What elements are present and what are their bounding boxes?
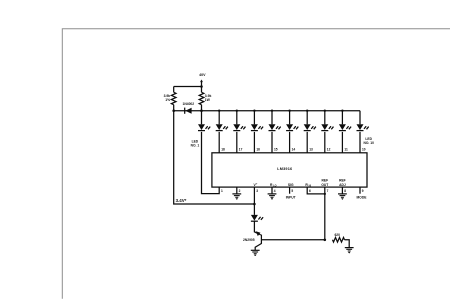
ground (pin 8 REF ADJ) [338, 194, 347, 200]
svg-text:HI: HI [309, 185, 312, 188]
pin 2 GND stub [236, 187, 238, 194]
svg-text:LO: LO [273, 185, 276, 188]
wire LED to Q1 emitter [254, 221, 261, 235]
svg-text:INPUT: INPUT [286, 195, 296, 199]
wire LED10 cathode to pin 10 [359, 132, 361, 153]
svg-text:4: 4 [274, 189, 276, 193]
svg-text:SIG: SIG [288, 183, 294, 187]
wire pin 7 REF OUT down to 620 node [324, 187, 326, 240]
node 40V supply terminal [199, 73, 206, 86]
svg-text:2: 2 [239, 189, 241, 193]
resistor R3 620 [333, 238, 345, 243]
label LED NO. 10 [363, 137, 374, 145]
diode D1 1N4002 [174, 108, 202, 114]
svg-text:LM3916: LM3916 [277, 167, 292, 171]
svg-text:10: 10 [362, 147, 366, 151]
svg-text:NO. 1: NO. 1 [191, 144, 200, 148]
wire LED anode bus [202, 110, 361, 112]
wire LED7 cathode to pin 13 [306, 132, 308, 153]
svg-text:ADJ: ADJ [339, 183, 346, 187]
label REF OUT (pin 7) [321, 179, 328, 187]
wire LED1 cathode to pin 1 [202, 132, 220, 194]
svg-text:3: 3 [256, 189, 258, 193]
LED D9 (LED NO. 8) [321, 111, 334, 131]
wire right resistor leads [201, 87, 203, 111]
wire LED5 cathode to pin 15 [271, 132, 273, 153]
svg-text:16: 16 [256, 147, 260, 151]
resistor R1 3.9k (left) [171, 92, 176, 104]
wire top node [174, 86, 202, 88]
svg-text:17: 17 [239, 147, 243, 151]
LED D4 (LED NO. 3) [233, 111, 246, 131]
svg-text:1%: 1% [165, 98, 170, 102]
svg-text:3.4V*: 3.4V* [176, 198, 187, 203]
svg-text:1: 1 [221, 189, 223, 193]
pin 5 SIG INPUT stub [289, 187, 291, 194]
svg-text:2N2905: 2N2905 [243, 238, 255, 242]
svg-text:7: 7 [327, 189, 329, 193]
transistor Q1 2N2905 [255, 231, 261, 250]
LED D6 (LED NO. 5) [269, 111, 282, 131]
svg-text:620: 620 [334, 233, 340, 237]
LED D5 (LED NO. 4) [251, 111, 264, 131]
resistor R2 3.9k (right) [199, 92, 204, 104]
wire 3.4V rail (left branch down + horizontal) [174, 111, 255, 204]
svg-text:40V: 40V [199, 73, 206, 77]
svg-text:OUT: OUT [321, 183, 328, 187]
wire LED8 cathode to pin 12 [324, 132, 326, 153]
ground (pin 2) [232, 194, 241, 200]
svg-text:1W: 1W [205, 98, 211, 102]
svg-text:1N4002: 1N4002 [183, 102, 195, 106]
pin 4 RLO stub [271, 187, 273, 194]
svg-text:12: 12 [327, 147, 331, 151]
svg-text:14: 14 [292, 147, 296, 151]
wire pin 6 RHI to pin 7 REF OUT [307, 187, 325, 194]
LED D11 (LED NO. 10) [357, 111, 370, 131]
wire R3 to ground [345, 240, 350, 248]
LED D12 (emitter indicator) [251, 204, 264, 221]
pin 9 MODE stub [359, 187, 361, 194]
page border frame [62, 29, 450, 299]
wire LED9 cathode to pin 11 [341, 132, 343, 153]
top pin numbers 18-10 [221, 147, 366, 151]
svg-text:NO. 10: NO. 10 [363, 141, 374, 145]
pin 8 REF ADJ stub [341, 187, 343, 194]
label REF ADJ (pin 8) [339, 179, 346, 187]
ground (pin 4 RLO) [268, 194, 277, 200]
wire left resistor leads [173, 87, 175, 111]
label R1 value [164, 94, 171, 102]
wire LED6 cathode to pin 14 [289, 132, 291, 153]
wire LED2 cathode to pin 18 [218, 132, 220, 153]
ground (Q1 collector) [251, 250, 260, 256]
op-amp U1 LM3916 body [212, 153, 367, 187]
LED D3 (LED NO. 2) [216, 111, 229, 131]
label R2 value [205, 94, 212, 102]
ground (R3) [345, 248, 354, 254]
LED D7 (LED NO. 6) [286, 111, 299, 131]
label LED NO. 1 [191, 140, 200, 148]
LED D2 (LED NO. 1) [198, 111, 211, 131]
bottom pin numbers 1-9 [221, 189, 364, 193]
LED D8 (LED NO. 7) [304, 111, 317, 131]
svg-text:5: 5 [291, 189, 293, 193]
svg-text:9: 9 [362, 189, 364, 193]
wire LED4 cathode to pin 16 [253, 132, 255, 153]
svg-text:13: 13 [309, 147, 313, 151]
node V+ junction [253, 187, 255, 204]
svg-text:MODE: MODE [357, 195, 368, 199]
svg-text:15: 15 [274, 147, 278, 151]
wire LED3 cathode to pin 17 [236, 132, 238, 153]
svg-text:8: 8 [344, 189, 346, 193]
svg-text:6: 6 [309, 189, 311, 193]
LED D10 (LED NO. 9) [339, 111, 352, 131]
svg-text:18: 18 [221, 147, 225, 151]
svg-text:11: 11 [344, 147, 348, 151]
wire Q1 base to 620 node [261, 239, 324, 241]
